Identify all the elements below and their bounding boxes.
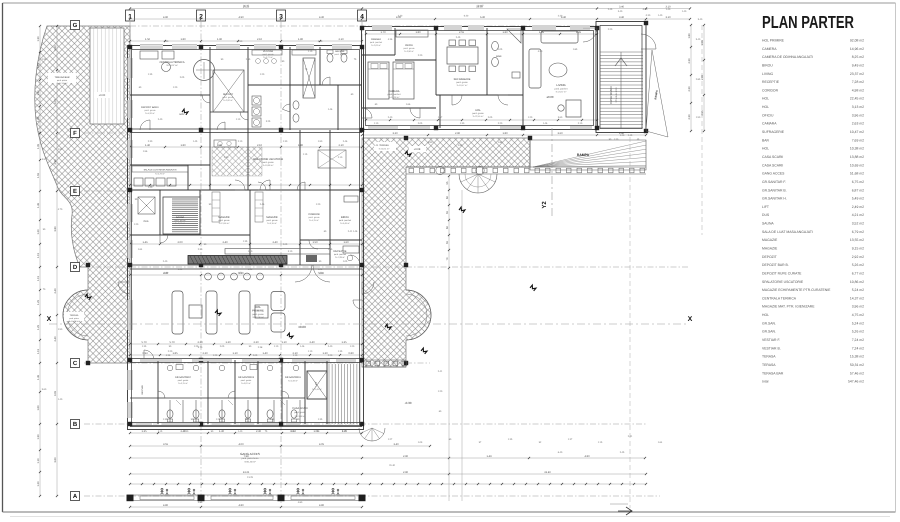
svg-text:3.60: 3.60 (557, 132, 563, 135)
svg-text:1.45: 1.45 (193, 140, 198, 143)
svg-text:4.36: 4.36 (388, 38, 393, 41)
svg-text:2: 2 (199, 14, 203, 21)
svg-text:4,98 m2: 4,98 m2 (852, 88, 864, 92)
interior wall vertical (329, 190, 331, 265)
svg-text:1.10: 1.10 (293, 354, 298, 357)
svg-text:2,63 m2: 2,63 m2 (852, 122, 864, 126)
dining table (447, 47, 478, 64)
coffee table 2 (255, 305, 268, 318)
svg-text:4.30: 4.30 (318, 272, 323, 275)
svg-text:1.10: 1.10 (374, 122, 379, 125)
svg-text:PRIMIRE: PRIMIRE (252, 309, 264, 313)
railing posts (409, 168, 414, 173)
svg-text:S=6,79 m²: S=6,79 m² (155, 173, 165, 176)
svg-text:4.20: 4.20 (538, 50, 543, 53)
svg-text:GR.SANITAR F: GR.SANITAR F (175, 376, 192, 379)
axis D dash-dot line (84, 266, 688, 268)
svg-text:1.50: 1.50 (145, 38, 151, 41)
svg-text:9,15 m2: 9,15 m2 (852, 247, 864, 251)
svg-text:2.40: 2.40 (158, 118, 163, 121)
svg-text:1.15: 1.15 (37, 275, 40, 281)
svg-text:S=57,46 m²: S=57,46 m² (57, 82, 68, 85)
svg-text:SAUNA: SAUNA (176, 216, 185, 219)
axis bubble A (71, 492, 80, 501)
inner chain y52 (130, 40, 362, 42)
svg-text:2.05: 2.05 (488, 116, 493, 119)
svg-text:6.40: 6.40 (558, 451, 563, 454)
svg-text:13,55 m2: 13,55 m2 (850, 238, 864, 242)
ramp slope lines (533, 141, 646, 167)
sofa group 2 (239, 291, 250, 334)
svg-text:2.30: 2.30 (688, 58, 691, 64)
svg-text:4.80: 4.80 (238, 504, 244, 507)
svg-text:S=2,63 m²: S=2,63 m² (371, 44, 381, 47)
right terrace railing squares (365, 359, 406, 361)
sala kitchen counters (134, 178, 143, 186)
gang entry fan (359, 428, 385, 441)
interior wall vertical (319, 47, 321, 85)
axis bubble F (71, 129, 80, 138)
ramp side triangle (646, 50, 668, 137)
svg-text:F: F (73, 130, 77, 137)
svg-text:S=10,47 m²: S=10,47 m² (457, 84, 468, 87)
dus corner (138, 197, 155, 214)
svg-text:4: 4 (360, 14, 364, 21)
svg-text:1.60: 1.60 (343, 241, 349, 244)
svg-text:1.50: 1.50 (312, 241, 318, 244)
svg-text:4.80: 4.80 (163, 504, 169, 507)
svg-text:1.30: 1.30 (37, 36, 40, 42)
svg-text:1.85: 1.85 (172, 352, 178, 355)
svg-text:pard. gresie: pard. gresie (472, 112, 484, 115)
annex casa scarii outer wall double line (596, 22, 646, 133)
living oval table (549, 63, 567, 77)
svg-text:GR.SANITAR F.: GR.SANITAR F. (762, 180, 786, 184)
svg-text:2.30: 2.30 (688, 114, 691, 120)
svg-text:MAGAZIE: MAGAZIE (266, 216, 278, 219)
svg-text:3.05: 3.05 (54, 390, 57, 396)
svg-text:1.50: 1.50 (58, 328, 63, 331)
svg-text:HOL: HOL (762, 105, 769, 109)
svg-text:S=10,86 m²: S=10,86 m² (263, 164, 274, 167)
svg-text:4.90: 4.90 (164, 40, 169, 43)
section line Y2 vertical (551, 128, 553, 218)
wc mid fixtures (293, 101, 299, 109)
svg-text:pard. piatra: pard. piatra (69, 317, 80, 320)
svg-text:2.20: 2.20 (608, 28, 613, 31)
svg-text:2.45: 2.45 (628, 134, 633, 137)
svg-text:OFICIU: OFICIU (762, 113, 774, 117)
svg-text:2.40: 2.40 (54, 336, 57, 342)
svg-text:CENTRALA TERMICA: CENTRALA TERMICA (159, 61, 184, 64)
walkway line below fan (461, 190, 463, 501)
svg-text:CASA SCARII: CASA SCARII (609, 86, 613, 104)
svg-text:GR.SANITAR B: GR.SANITAR B (238, 376, 255, 379)
left dimension chain inner (56, 26, 58, 496)
svg-text:1.20: 1.20 (318, 268, 323, 271)
svg-text:22,45 m2: 22,45 m2 (850, 97, 864, 101)
svg-text:3.55: 3.55 (163, 443, 169, 446)
svg-text:1.20: 1.20 (216, 418, 221, 421)
svg-text:1.05: 1.05 (328, 248, 333, 251)
svg-text:DEPOZIT RUFE CURATE: DEPOZIT RUFE CURATE (762, 271, 802, 275)
sanitary mid wall (130, 397, 305, 399)
svg-text:5,24 m2: 5,24 m2 (852, 288, 864, 292)
svg-text:pard. gresie: pard. gresie (145, 109, 157, 112)
svg-text:1.40: 1.40 (262, 352, 268, 355)
stall doors (176, 400, 181, 405)
svg-text:2.30: 2.30 (224, 156, 229, 159)
svg-text:CAMARA: CAMARA (762, 122, 777, 126)
svg-text:2.46: 2.46 (260, 203, 265, 206)
svg-text:1.25: 1.25 (37, 299, 40, 305)
svg-text:3,13 m2: 3,13 m2 (852, 105, 864, 109)
svg-text:1.27: 1.27 (388, 438, 393, 441)
colonnade stick figures (161, 488, 163, 490)
svg-text:S=14,96 m²: S=14,96 m² (389, 96, 400, 99)
svg-text:2.05: 2.05 (418, 122, 423, 125)
svg-text:2.45: 2.45 (456, 36, 461, 39)
axis bubble 1 (126, 10, 135, 21)
inner chain wing y34 (366, 33, 597, 35)
svg-text:1.30: 1.30 (37, 90, 40, 96)
svg-text:C: C (73, 360, 78, 367)
svg-text:1.44: 1.44 (374, 144, 379, 147)
svg-text:2,92 m2: 2,92 m2 (852, 255, 864, 259)
svg-text:CORIDOR: CORIDOR (762, 88, 779, 92)
ct equipment (140, 51, 158, 59)
svg-text:4.00: 4.00 (238, 443, 244, 446)
svg-text:0.93: 0.93 (142, 352, 148, 355)
svg-text:2.30: 2.30 (688, 86, 691, 92)
F wall pair (130, 128, 362, 130)
annex exterior door arc (641, 34, 656, 49)
svg-text:1.46: 1.46 (328, 108, 333, 111)
svg-text:1.20: 1.20 (620, 134, 625, 137)
sinks row (167, 365, 173, 371)
svg-text:1.45: 1.45 (37, 374, 40, 380)
svg-text:LIFT: LIFT (315, 381, 318, 386)
svg-text:2.95: 2.95 (701, 110, 704, 116)
colonnade parapet segments (140, 496, 194, 500)
svg-text:1.20: 1.20 (225, 341, 231, 344)
svg-text:1.20: 1.20 (37, 481, 40, 487)
sauna striped block (163, 197, 200, 234)
interior wall vertical (329, 130, 331, 190)
svg-text:DUS: DUS (762, 213, 770, 217)
svg-text:4.30: 4.30 (178, 268, 183, 271)
svg-text:2.05: 2.05 (253, 354, 258, 357)
svg-text:4.30: 4.30 (398, 15, 403, 18)
svg-text:SPALATORIE USCATORIE: SPALATORIE USCATORIE (253, 158, 284, 161)
svg-text:1.35: 1.35 (318, 418, 323, 421)
right dimension chain outer (703, 25, 705, 131)
svg-text:pard. gresie: pard. gresie (175, 219, 187, 222)
svg-text:1.80: 1.80 (180, 38, 186, 41)
top dimension chain overall (130, 8, 690, 10)
svg-text:2.45: 2.45 (608, 8, 613, 11)
svg-text:1.15: 1.15 (37, 348, 40, 354)
counter upper shelf (225, 249, 330, 255)
axis bubble 2 (197, 10, 206, 21)
inner chain y213 (130, 243, 362, 245)
svg-text:0.30: 0.30 (646, 14, 651, 17)
svg-text:2.05: 2.05 (180, 76, 185, 79)
svg-text:BAIE: BAIE (496, 55, 502, 58)
svg-text:RECEPTIE: RECEPTIE (762, 80, 780, 84)
svg-text:1.35: 1.35 (508, 438, 513, 441)
small sink counters mid (292, 50, 316, 55)
svg-text:D: D (73, 264, 78, 271)
right dimension chain inner (690, 25, 692, 131)
svg-text:2.10: 2.10 (257, 38, 263, 41)
svg-text:547,46 m2: 547,46 m2 (848, 380, 864, 384)
sanitary wall vertical (157, 360, 159, 424)
svg-text:pard. gresie: pard. gresie (294, 411, 306, 414)
svg-text:5.60: 5.60 (54, 45, 57, 51)
terasa bar inner deck lines (93, 28, 95, 124)
axis bubble C (71, 359, 80, 368)
svg-text:pard. gresie: pard. gresie (223, 96, 235, 99)
shaft X (303, 58, 315, 98)
svg-text:7,24 m2: 7,24 m2 (852, 338, 864, 342)
svg-text:3.97: 3.97 (42, 158, 47, 161)
reception counter dark (188, 256, 287, 265)
svg-text:BIROU: BIROU (341, 216, 349, 219)
svg-text:1.40: 1.40 (238, 430, 243, 433)
svg-text:5,24 m2: 5,24 m2 (852, 321, 864, 325)
inner chain below C (130, 354, 362, 356)
left block outer wall double line (128, 46, 364, 430)
inner chain y147 (130, 146, 362, 148)
inner chain wing y135 (362, 134, 646, 136)
svg-text:1.15: 1.15 (598, 441, 603, 444)
svg-text:2.20: 2.20 (498, 122, 503, 125)
vestiar benches (252, 50, 282, 55)
svg-text:1.49: 1.49 (486, 455, 492, 458)
svg-text:1.35: 1.35 (243, 240, 248, 243)
svg-text:3.40: 3.40 (393, 443, 399, 446)
svg-text:13,88 m2: 13,88 m2 (850, 155, 864, 159)
svg-text:GR.SANITAR B.: GR.SANITAR B. (762, 188, 787, 192)
svg-text:1.80: 1.80 (502, 31, 508, 34)
svg-text:1.09: 1.09 (418, 441, 423, 444)
svg-text:1.15: 1.15 (303, 153, 308, 156)
svg-text:1.40: 1.40 (148, 186, 153, 189)
wing interior wall (486, 28, 488, 95)
svg-text:2.05: 2.05 (246, 58, 251, 61)
coffee table 1 (189, 305, 202, 318)
svg-text:1.15: 1.15 (158, 430, 163, 433)
svg-text:VESTIAR F.: VESTIAR F. (762, 338, 780, 342)
axis dash-dot vertical grid line 3 (280, 22, 282, 505)
washing machines (252, 96, 261, 105)
svg-text:S=22,45 m²: S=22,45 m² (473, 115, 484, 118)
svg-text:57,46 m2: 57,46 m2 (850, 371, 864, 375)
svg-text:7,24 m2: 7,24 m2 (852, 346, 864, 350)
wall y95 (130, 94, 210, 96)
svg-text:total: total (762, 380, 769, 384)
svg-text:SPALATORIE USCATORIE: SPALATORIE USCATORIE (762, 280, 804, 284)
wing corridor wall y95 (436, 94, 523, 96)
svg-text:G: G (73, 22, 78, 29)
living desk (566, 100, 581, 117)
svg-text:2.20: 2.20 (418, 54, 423, 57)
lift shaft (307, 371, 327, 399)
interior wall vertical (337, 85, 339, 130)
svg-text:1.80: 1.80 (415, 31, 421, 34)
axis bubble 4 (358, 10, 367, 21)
svg-text:TERASA: TERASA (762, 355, 776, 359)
E wall (130, 189, 362, 191)
svg-text:6.30: 6.30 (480, 16, 486, 19)
svg-text:CAMERA DE ODIHNA ANGAJATI: CAMERA DE ODIHNA ANGAJATI (762, 55, 813, 59)
wing interior wall (439, 95, 441, 128)
axis G dash-dot line (84, 25, 594, 27)
svg-text:S=15,38 m²: S=15,38 m² (69, 320, 80, 323)
svg-text:1.35: 1.35 (141, 430, 147, 433)
interior wall vertical (159, 190, 161, 235)
interior wall vertical (247, 130, 249, 190)
svg-text:GANG ACCES: GANG ACCES (240, 452, 260, 456)
svg-text:1.90: 1.90 (217, 38, 223, 41)
svg-text:3.60: 3.60 (558, 116, 563, 119)
svg-text:1.97: 1.97 (58, 148, 63, 151)
hall top wall pair (130, 264, 362, 266)
svg-text:3.60: 3.60 (54, 457, 57, 463)
svg-text:GR.SANITAR H: GR.SANITAR H (285, 376, 302, 379)
svg-text:SUFRAGERIE: SUFRAGERIE (454, 78, 471, 81)
terasa left label (64, 312, 84, 321)
svg-text:1.46: 1.46 (300, 345, 305, 348)
svg-text:CORIDOR: CORIDOR (308, 213, 320, 216)
biro desk (344, 196, 358, 202)
svg-text:4.50: 4.50 (238, 272, 243, 275)
svg-text:MAGAZIE ECHIPAMENTE PTR.CURATE: MAGAZIE ECHIPAMENTE PTR.CURATENIE (762, 288, 831, 292)
svg-text:51,68 m2: 51,68 m2 (850, 172, 864, 176)
axis C dash-dot line (84, 362, 430, 364)
svg-text:4.05: 4.05 (319, 443, 325, 446)
upper block door arcs (140, 120, 150, 130)
svg-text:3.10: 3.10 (665, 16, 671, 19)
svg-text:pard. gresie: pard. gresie (263, 53, 275, 56)
inner chain hall top (130, 274, 362, 276)
svg-text:2.90: 2.90 (455, 132, 461, 135)
svg-text:VESTIAR B.: VESTIAR B. (762, 346, 781, 350)
svg-text:2.90: 2.90 (458, 144, 463, 147)
axis E dash-dot line (84, 190, 128, 192)
dashed vertical x627 (629, 137, 631, 508)
svg-text:pard. gresie: pard. gresie (267, 219, 279, 222)
svg-text:LIVING: LIVING (762, 72, 773, 76)
axis bubble G (71, 21, 80, 30)
svg-text:1.96: 1.96 (143, 150, 148, 153)
hatched site terrain, left blob (35, 26, 130, 363)
svg-text:9,49 m2: 9,49 m2 (852, 63, 864, 67)
sanitary wall vertical (304, 360, 306, 424)
right terrace semicircle outline (406, 290, 431, 340)
svg-text:1.66: 1.66 (406, 103, 411, 106)
svg-text:1.30: 1.30 (460, 122, 465, 125)
svg-text:1.46: 1.46 (142, 241, 148, 244)
svg-text:pard. gresie: pard. gresie (335, 53, 347, 56)
svg-text:1.35: 1.35 (37, 143, 40, 149)
wall y240 right (300, 239, 362, 241)
terrace railing lines (406, 166, 646, 168)
svg-text:RECEPTIE: RECEPTIE (334, 250, 347, 253)
svg-text:TERASA BAR: TERASA BAR (762, 371, 784, 375)
svg-text:pard. parchet: pard. parchet (339, 219, 352, 222)
svg-text:2.41: 2.41 (628, 435, 633, 438)
terasa top right label (374, 142, 396, 151)
svg-text:2.10: 2.10 (578, 122, 583, 125)
windows hall bottom C (140, 359, 182, 361)
sanitary wall vertical (281, 360, 283, 424)
B wall pair (130, 422, 362, 424)
axis B dash-dot line (84, 423, 646, 425)
svg-text:2.05: 2.05 (220, 345, 225, 348)
entry fan steps (459, 174, 497, 193)
svg-text:3: 3 (279, 14, 283, 21)
svg-text:8,25 m2: 8,25 m2 (852, 55, 864, 59)
svg-text:1.64: 1.64 (658, 441, 663, 444)
svg-text:pard. gresie: pard. gresie (309, 216, 321, 219)
svg-text:1.50: 1.50 (696, 116, 701, 119)
svg-text:pard. piatra bruta: pard. piatra bruta (242, 457, 259, 460)
svg-text:CENTRALA TERMICA: CENTRALA TERMICA (762, 296, 797, 300)
spalatorie hatched floor (212, 147, 262, 176)
interior wall vertical (299, 130, 301, 190)
bed 2 (393, 62, 414, 99)
svg-text:5.40: 5.40 (696, 38, 701, 41)
svg-text:S=14,37 m²: S=14,37 m² (166, 64, 178, 67)
svg-text:2.38: 2.38 (197, 341, 203, 344)
svg-text:TERASA: TERASA (379, 144, 389, 147)
svg-text:1.35: 1.35 (338, 350, 343, 353)
svg-text:DEBARA: DEBARA (371, 38, 381, 41)
svg-text:MAGAZIE: MAGAZIE (762, 238, 778, 242)
axis dash-dot vertical grid line 1 (129, 22, 131, 50)
svg-text:1.50: 1.50 (42, 58, 47, 61)
svg-text:5.70: 5.70 (169, 341, 175, 344)
svg-text:2.30: 2.30 (184, 430, 189, 433)
windows B wall (136, 423, 152, 425)
bottom chain 31.40 (130, 473, 646, 475)
svg-text:1.46: 1.46 (543, 122, 548, 125)
armchair pair (271, 292, 285, 311)
lower staircase treads (328, 364, 330, 424)
svg-text:2.85: 2.85 (701, 39, 704, 45)
svg-text:S=3,52 m²: S=3,52 m² (175, 222, 185, 225)
wing wall y60 (395, 59, 436, 61)
svg-text:2.10: 2.10 (338, 144, 344, 147)
svg-text:14,96 m2: 14,96 m2 (850, 47, 864, 51)
svg-text:1.10: 1.10 (37, 458, 40, 464)
svg-text:1.35: 1.35 (163, 418, 168, 421)
sala de luat masa label box (132, 166, 188, 172)
bottom right chain (130, 457, 645, 459)
bottom chain dense (130, 483, 646, 485)
svg-text:1.35: 1.35 (342, 430, 347, 433)
svg-text:3.20: 3.20 (392, 132, 398, 135)
svg-text:5.40: 5.40 (698, 18, 703, 21)
svg-text:SUFRAGERIE: SUFRAGERIE (762, 130, 785, 134)
svg-text:3.40: 3.40 (618, 10, 623, 13)
svg-text:1.40: 1.40 (58, 398, 63, 401)
svg-text:2.20: 2.20 (202, 352, 208, 355)
svg-text:3.25: 3.25 (266, 120, 271, 123)
svg-text:1.46: 1.46 (353, 230, 358, 233)
